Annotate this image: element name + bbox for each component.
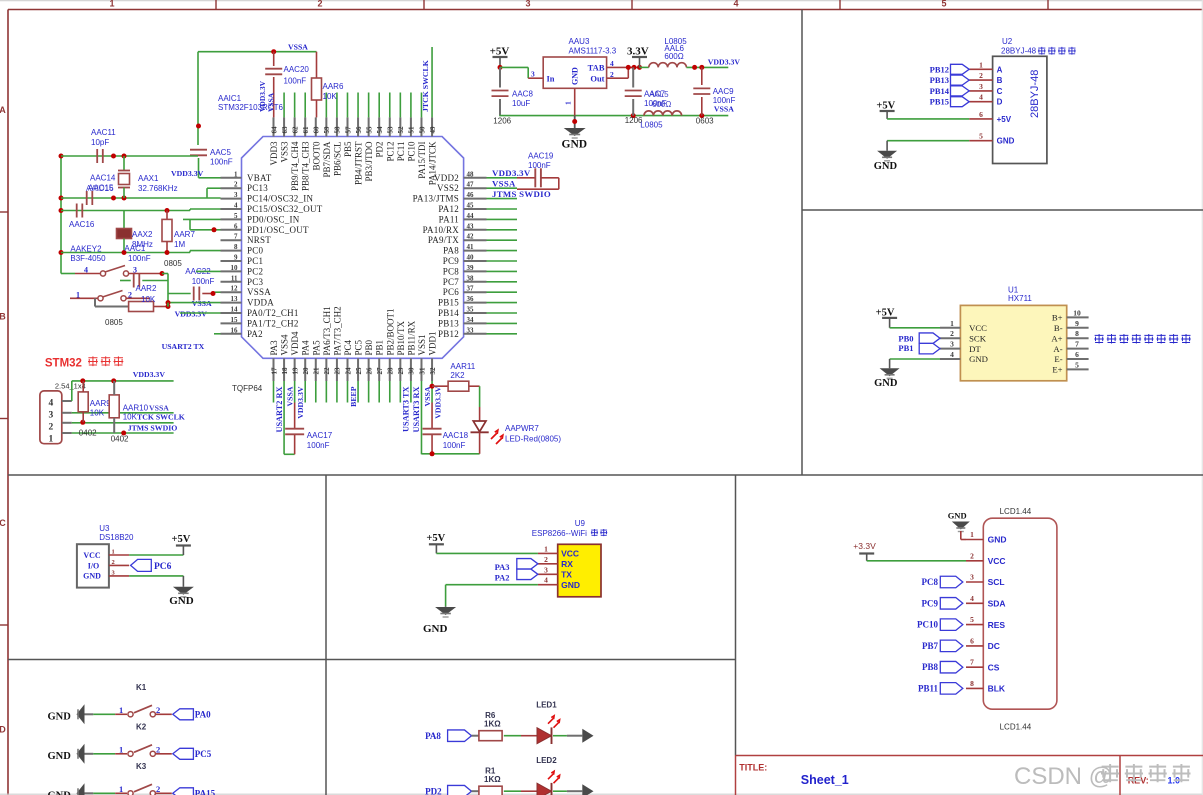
svg-text:18: 18 [281,367,289,375]
wire row10 [196,270,221,272]
svg-text:0805: 0805 [164,259,182,268]
svg-text:25: 25 [355,367,363,375]
svg-text:SCL: SCL [988,577,1005,587]
svg-text:AAU3: AAU3 [569,37,590,46]
svg-text:AAC16: AAC16 [69,220,95,229]
svg-text:PC0: PC0 [247,246,264,256]
net label JTMS SWDIO dl [128,423,178,432]
svg-text:PB0: PB0 [364,339,374,355]
svg-text:PC2: PC2 [247,266,263,276]
svg-text:PC8: PC8 [922,577,939,587]
svg-text:4: 4 [950,350,954,359]
net label TCK SWCLK [123,413,185,422]
svg-text:2: 2 [970,551,974,560]
pin 8 PC0 [221,243,264,256]
U2 pins [969,60,1014,145]
svg-text:D: D [997,98,1003,107]
svg-text:VDD3.3V: VDD3.3V [492,168,531,178]
power +5V hx711 [876,308,898,328]
capacitor AAC1 sym [120,274,168,294]
pin 48 VDD2 [434,170,487,183]
svg-text:1M: 1M [174,240,185,249]
net label JTMS SWDIO [492,189,551,199]
svg-text:JTMS SWDIO: JTMS SWDIO [128,423,178,432]
net label PA3 [495,559,538,572]
pin 63 VSS3 [280,117,290,162]
wire pin1 [199,177,221,179]
svg-text:600Ω: 600Ω [652,100,671,109]
svg-text:TQFP64: TQFP64 [232,384,263,393]
svg-text:4: 4 [979,93,983,102]
label 0402 b [111,434,129,443]
wire row14 [180,312,221,314]
svg-text:10: 10 [1073,308,1081,317]
svg-text:2: 2 [156,784,160,794]
net label VSSA rotated [267,92,276,112]
pin 52 PC11 [396,117,406,161]
svg-text:VDD4: VDD4 [290,331,300,355]
ground lcd [948,511,970,540]
svg-text:PC6: PC6 [154,562,172,572]
svg-text:5: 5 [941,0,946,9]
svg-text:A: A [997,65,1003,74]
power +5V main [490,46,510,70]
svg-text:32.768KHz: 32.768KHz [138,184,178,193]
svg-text:1: 1 [119,784,123,794]
svg-text:VDD3.3V: VDD3.3V [175,310,208,319]
svg-text:2: 2 [950,329,954,338]
label 0805 a [164,259,182,268]
svg-text:VSSA: VSSA [288,43,308,52]
svg-text:1: 1 [119,705,123,715]
svg-text:3.3V: 3.3V [627,46,649,58]
svg-text:1: 1 [119,744,123,754]
svg-text:K2: K2 [136,722,147,731]
svg-text:DT: DT [969,344,981,354]
svg-text:28: 28 [387,367,395,375]
U9 pins [538,544,580,590]
wires top pin stubs [284,47,432,117]
pin 56 PB4/JTRST [354,117,364,185]
svg-text:53: 53 [387,126,395,134]
svg-text:JTMS SWDIO: JTMS SWDIO [492,189,551,199]
svg-text:PD0/OSC_IN: PD0/OSC_IN [247,214,300,224]
svg-text:20: 20 [302,367,310,375]
wire hx711 gnd [890,359,940,368]
svg-text:VDD2: VDD2 [434,173,459,183]
svg-text:LCD1.44: LCD1.44 [1000,507,1032,516]
pin 26 PB0 [364,339,374,381]
net label USART2 RX [275,387,284,433]
svg-text:PA3: PA3 [269,340,279,356]
svg-text:B: B [997,76,1003,85]
svg-text:BEEP: BEEP [349,386,358,407]
net label VDD3.3V rotated [258,80,267,112]
svg-text:VCC: VCC [969,323,987,333]
watermark CSDN [1014,763,1191,790]
svg-text:AAR6: AAR6 [323,82,344,91]
svg-text:LED1: LED1 [536,701,557,710]
pin 18 VSS4 [280,334,290,381]
svg-text:27: 27 [376,367,384,375]
ground stepper [874,151,898,172]
svg-text:19: 19 [291,367,299,375]
pin 38 PC7 [443,274,487,287]
svg-text:42: 42 [467,233,475,241]
resistor AAR7 1M [162,211,195,253]
svg-text:3: 3 [234,191,238,199]
svg-text:AAR7: AAR7 [174,230,195,239]
power 3.3V [627,46,649,68]
svg-text:10K: 10K [123,413,138,422]
pin 15 PA1/T2_CH2 [221,316,299,329]
pin 20 PA4 [301,340,311,381]
label 0402 a [79,428,97,437]
power +5V stepper [876,101,895,119]
svg-text:PA0: PA0 [195,710,211,720]
svg-text:+5V: +5V [490,46,510,58]
svg-text:33: 33 [467,326,475,334]
pin 42 PA9/TX [428,233,487,246]
svg-text:7: 7 [1075,340,1079,349]
LED2 row [425,756,593,795]
pin 5 PD0/OSC_IN [221,212,300,225]
key K3 [48,762,216,795]
pin 29 PB10/TX [396,320,406,381]
pin 23 PA7/T3_CH2 [332,306,342,381]
svg-text:29: 29 [397,367,405,375]
svg-text:PB3/JTDO: PB3/JTDO [364,141,374,182]
svg-text:10K: 10K [141,295,156,304]
net label BEEP [349,386,358,407]
svg-text:100nF: 100nF [192,277,215,286]
svg-text:VDD3.3V: VDD3.3V [296,386,305,419]
svg-text:32: 32 [429,367,437,375]
svg-text:PB9/T4_CH4: PB9/T4_CH4 [290,141,300,191]
svg-text:62: 62 [291,126,299,134]
svg-text:PC10: PC10 [917,620,938,630]
svg-text:12: 12 [231,285,239,293]
svg-text:VDD3.3V: VDD3.3V [708,58,741,67]
svg-text:AAC17: AAC17 [307,431,333,440]
svg-text:B3F-4050: B3F-4050 [70,254,106,263]
wire row13 [166,300,221,306]
svg-text:AAR11: AAR11 [450,362,475,371]
svg-text:D: D [0,725,6,735]
LED1 row [425,701,593,744]
svg-text:10K: 10K [90,409,105,418]
svg-text:PA12: PA12 [438,204,459,214]
pin 50 PA15/TDI [417,117,427,178]
svg-text:B-: B- [1054,323,1063,333]
svg-text:K3: K3 [136,762,147,771]
connector U2 28BYJ-48 [993,37,1076,164]
svg-text:SDA: SDA [988,599,1006,609]
svg-text:59: 59 [323,126,331,134]
pin 25 PC5 [354,339,364,381]
svg-text:3: 3 [531,69,535,78]
net label VDD3.3V [492,168,531,178]
wire esp gnd [446,585,538,607]
svg-text:7: 7 [234,233,238,241]
svg-text:38: 38 [467,274,475,282]
regulator gnd pin [564,88,575,115]
svg-text:VDD3.3V: VDD3.3V [433,386,442,419]
svg-text:5: 5 [979,132,983,141]
svg-text:PA5: PA5 [311,340,321,356]
svg-text:K1: K1 [136,683,147,692]
pin 9 PC1 [221,254,264,267]
svg-text:2K2: 2K2 [450,371,465,380]
svg-text:8: 8 [234,243,238,251]
svg-text:DS18B20: DS18B20 [99,533,134,542]
wire 5v to reg [500,67,543,78]
svg-text:100nF: 100nF [528,161,551,170]
svg-text:VSSA: VSSA [714,105,734,114]
pin 22 PA6/T3_CH1 [322,306,332,381]
svg-text:PC9: PC9 [443,256,460,266]
svg-text:0805: 0805 [105,318,123,327]
svg-text:L0805: L0805 [640,121,663,130]
svg-text:34: 34 [467,316,475,324]
svg-text:11: 11 [231,274,238,282]
svg-text:600Ω: 600Ω [664,52,683,61]
svg-text:RX: RX [561,559,573,569]
svg-text:A-: A- [1053,344,1062,354]
pin 49 PA14/JTCK [428,117,438,185]
net label USART3 TX [402,386,411,431]
svg-text:PB2/BOOT1: PB2/BOOT1 [385,308,395,355]
capacitor AAC14 [86,174,116,206]
svg-text:51: 51 [408,126,416,134]
pin 16 PA2 [221,326,263,339]
LCD pins [966,530,1006,694]
svg-text:55: 55 [365,126,373,134]
pin 44 PA11 [439,212,487,225]
svg-text:VSS1: VSS1 [417,334,427,355]
svg-text:47: 47 [467,181,475,189]
svg-text:6: 6 [234,222,238,230]
svg-text:1: 1 [950,319,954,328]
svg-text:NRST: NRST [247,235,271,245]
pin 4 PC15/OSC32_OUT [221,202,323,215]
svg-text:26: 26 [365,367,373,375]
svg-text:1: 1 [112,549,115,556]
svg-text:PB5: PB5 [343,141,353,157]
LED AAPWR7 LED-Red [471,407,562,454]
pin 47 VSS2 [437,181,487,194]
net label VDD3.3V rows [175,310,208,319]
svg-text:PB14: PB14 [930,86,950,96]
svg-text:+5V: +5V [172,534,191,545]
svg-text:PB1: PB1 [898,343,913,353]
svg-text:AAC11: AAC11 [91,128,116,137]
wire dl pin2 [62,420,174,425]
wire C [61,208,221,213]
pin 45 PA12 [438,202,486,215]
svg-text:USART3 RX: USART3 RX [412,387,421,433]
net label VDD3.3V dl [133,370,166,379]
svg-text:PD1/OSC_OUT: PD1/OSC_OUT [247,225,309,235]
label STM32 download port [45,356,123,369]
svg-text:0402: 0402 [79,428,97,437]
svg-text:4: 4 [544,576,548,585]
net label PC6 [131,559,172,571]
svg-text:GND: GND [48,751,72,762]
svg-text:6: 6 [1075,350,1079,359]
svg-text:AAC19: AAC19 [528,152,554,161]
svg-text:PD2: PD2 [375,142,385,158]
crystal AAX2 8MHz [117,211,154,253]
svg-text:8: 8 [970,679,974,688]
power +5V esp [426,533,445,553]
svg-text:PC11: PC11 [396,142,406,162]
svg-text:Sheet_1: Sheet_1 [801,773,849,787]
svg-text:PC5: PC5 [354,339,364,355]
net label VSSA rows [192,299,212,308]
svg-text:A: A [0,105,6,115]
pin 39 PC8 [443,264,487,277]
svg-text:4: 4 [733,0,738,9]
svg-text:USART2 RX: USART2 RX [275,387,284,433]
svg-text:1KΩ: 1KΩ [484,775,501,784]
svg-text:GND: GND [997,137,1015,146]
resistor AAR9 10K [78,381,111,422]
resistor AAR11 2K2 [432,362,480,407]
svg-text:GND: GND [169,595,194,607]
svg-text:1: 1 [979,60,983,69]
svg-text:PA8: PA8 [425,731,441,741]
svg-text:44: 44 [467,212,475,220]
svg-text:AAR2: AAR2 [136,284,157,293]
net labels PB12-PB15 [930,64,970,106]
svg-text:GND: GND [988,535,1007,545]
net label VSSA b2 [423,386,432,406]
svg-text:1: 1 [970,530,974,539]
svg-text:VSSA: VSSA [423,386,432,406]
svg-text:PC7: PC7 [443,277,460,287]
capacitor AAC11 10pF [91,128,116,163]
svg-text:PB15: PB15 [438,298,459,308]
svg-text:3: 3 [525,0,530,9]
svg-text:ESP8266--WiFi: ESP8266--WiFi [532,529,587,538]
svg-text:41: 41 [467,243,475,251]
svg-text:30: 30 [408,367,416,375]
pin 37 PC6 [443,285,487,298]
svg-text:AAPWR7: AAPWR7 [505,424,539,433]
svg-text:3: 3 [544,565,548,574]
svg-text:5: 5 [1075,360,1079,369]
svg-text:57: 57 [344,126,352,134]
svg-text:PB7: PB7 [922,641,939,651]
svg-text:PA0/T2_CH1: PA0/T2_CH1 [247,308,299,318]
net label USART3 RX [412,387,421,433]
wire vdd33 [686,65,728,70]
pin 64 VDD3 [269,117,279,165]
svg-text:PC5: PC5 [195,749,212,759]
svg-text:PA4: PA4 [301,340,311,356]
wire AAC5 branch [196,52,201,145]
svg-text:23: 23 [334,367,342,375]
svg-text:100nF: 100nF [307,441,330,450]
wire A [61,154,198,159]
svg-text:5: 5 [970,615,974,624]
wire dl pin1 [62,431,174,436]
svg-text:DC: DC [988,641,1000,651]
svg-text:U2: U2 [1002,37,1013,46]
pin 60 BOOT0 [311,117,321,170]
pin 11 PC3 [221,274,264,287]
resistor AAR2 10K [95,284,171,312]
pin 54 PD2 [375,117,385,157]
svg-text:+5V: +5V [876,101,895,112]
net label PB1 [898,343,940,354]
svg-text:U3: U3 [99,524,110,533]
svg-text:2: 2 [156,744,160,754]
pin 51 PC10 [406,117,416,161]
label weighing frame [1094,334,1190,344]
ground esp [423,607,456,635]
resistor AAR6 10K [312,52,344,118]
svg-text:E+: E+ [1052,365,1062,375]
pin 43 PA10/RX [423,222,487,235]
svg-text:0603: 0603 [696,117,714,126]
net label VDD3.3V pwr [708,58,741,67]
svg-text:TCK SWCLK: TCK SWCLK [137,413,185,422]
svg-text:GND: GND [83,572,101,581]
svg-text:1: 1 [564,101,573,105]
svg-text:PA7/T3_CH2: PA7/T3_CH2 [332,306,342,355]
svg-text:PB8/T4_CH3: PB8/T4_CH3 [301,141,311,191]
svg-text:AAID16: AAID16 [86,184,114,193]
svg-text:GND: GND [561,580,580,590]
inductor AAL6 600 [649,37,687,67]
svg-text:48: 48 [467,170,475,178]
svg-text:PB6/SCL: PB6/SCL [332,142,342,177]
svg-text:4: 4 [234,202,238,210]
svg-text:LED-Red(0805): LED-Red(0805) [505,435,561,444]
svg-text:31: 31 [418,367,426,375]
svg-text:PB12: PB12 [930,64,949,74]
svg-text:4: 4 [970,594,974,603]
svg-text:+5V: +5V [997,115,1012,124]
svg-text:GND: GND [423,623,448,635]
inductor AAL5 [644,111,682,116]
svg-text:PB15: PB15 [930,97,949,107]
svg-text:BOOT0: BOOT0 [311,141,321,170]
pin 31 VSS1 [417,334,427,381]
svg-text:PB12: PB12 [438,329,459,339]
svg-text:2: 2 [979,71,983,80]
svg-text:VCC: VCC [988,556,1006,566]
svg-text:58: 58 [334,126,342,134]
svg-text:2: 2 [234,181,238,189]
wire dl pin4 [62,381,72,401]
capacitor AAC18 100nF [421,384,479,457]
svg-text:VSSA: VSSA [192,299,212,308]
label AAC1 [124,244,150,263]
svg-text:24: 24 [344,367,352,375]
wire lcd vcc [867,560,966,562]
svg-text:VDD3: VDD3 [269,141,279,165]
svg-text:61: 61 [302,126,310,134]
svg-text:2: 2 [156,705,160,715]
pin 34 PB13 [438,316,487,329]
svg-text:4: 4 [49,398,54,408]
net label VSSA top [288,43,308,52]
svg-text:VSS3: VSS3 [280,141,290,163]
capacitor AAC17 100nF [284,403,333,455]
